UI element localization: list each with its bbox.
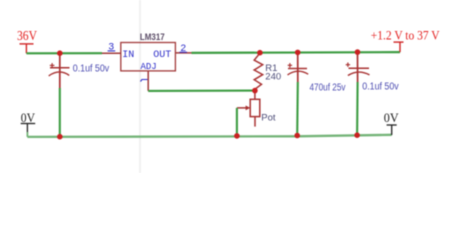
junction dot C2 bottom 0V — [294, 133, 300, 139]
resistor R1 240 — [254, 53, 281, 90]
svg-text:3: 3 — [108, 43, 114, 54]
junction dot C3 bottom 0V — [354, 132, 360, 138]
svg-text:ADJ: ADJ — [141, 62, 157, 72]
svg-text:0V: 0V — [21, 111, 35, 125]
svg-text:0V: 0V — [384, 111, 399, 125]
svg-text:0.1uf 50v: 0.1uf 50v — [73, 64, 109, 75]
node VIN port label 36V — [17, 28, 37, 53]
junction dot R1 top — [257, 50, 263, 56]
wire bottom 0V rail — [27, 135, 391, 137]
faint page grid line — [139, 0, 141, 173]
potentiometer Pot — [237, 91, 276, 127]
wire C1 bottom to 0V rail — [59, 88, 61, 137]
junction dot Pot wiper 0V — [234, 133, 240, 139]
capacitor C1 0.1uf 50v input — [49, 53, 110, 88]
node +1.2V to 37V output port — [371, 28, 440, 52]
pin 2 (OUT) — [175, 44, 191, 55]
pin 1 (ADJ) lead — [141, 71, 149, 91]
svg-text:2: 2 — [180, 44, 186, 55]
junction dot C3 top — [355, 49, 361, 55]
wire C2 bottom to 0V rail — [296, 82, 299, 136]
capacitor C2 470uf 25v — [288, 52, 346, 93]
svg-text:Pot: Pot — [261, 113, 276, 124]
node 0V port left — [21, 111, 36, 137]
op-amp U1 LM317 regulator box — [121, 32, 176, 72]
svg-text:470uf 25v: 470uf 25v — [310, 82, 346, 93]
svg-text:240: 240 — [265, 71, 281, 82]
svg-text:LM317: LM317 — [140, 32, 165, 43]
wire Pot wiper to 0V rail — [236, 108, 238, 136]
svg-text:+1.2 V to 37 V: +1.2 V to 37 V — [371, 28, 440, 42]
junction dot C2 top — [295, 50, 301, 56]
svg-text:0.1uf 50v: 0.1uf 50v — [362, 82, 398, 93]
junction dot C1 bottom 0V — [57, 134, 63, 140]
wire output rail (pin2 to output port) — [192, 51, 401, 54]
node 0V port right — [384, 111, 399, 135]
wire input rail (36V to pin3) — [26, 52, 102, 54]
capacitor C3 0.1uf 50v output — [346, 52, 399, 93]
pin 3 (IN) — [102, 43, 121, 54]
svg-text:OUT: OUT — [153, 50, 171, 61]
svg-text:IN: IN — [122, 50, 134, 61]
junction dot ADJ/R1 bottom — [252, 88, 258, 94]
svg-text:36V: 36V — [17, 28, 37, 43]
wire ADJ to R1 bottom — [148, 90, 255, 92]
junction dot VIN/C1 top — [57, 50, 63, 56]
wire C3 bottom to 0V rail — [356, 82, 359, 135]
